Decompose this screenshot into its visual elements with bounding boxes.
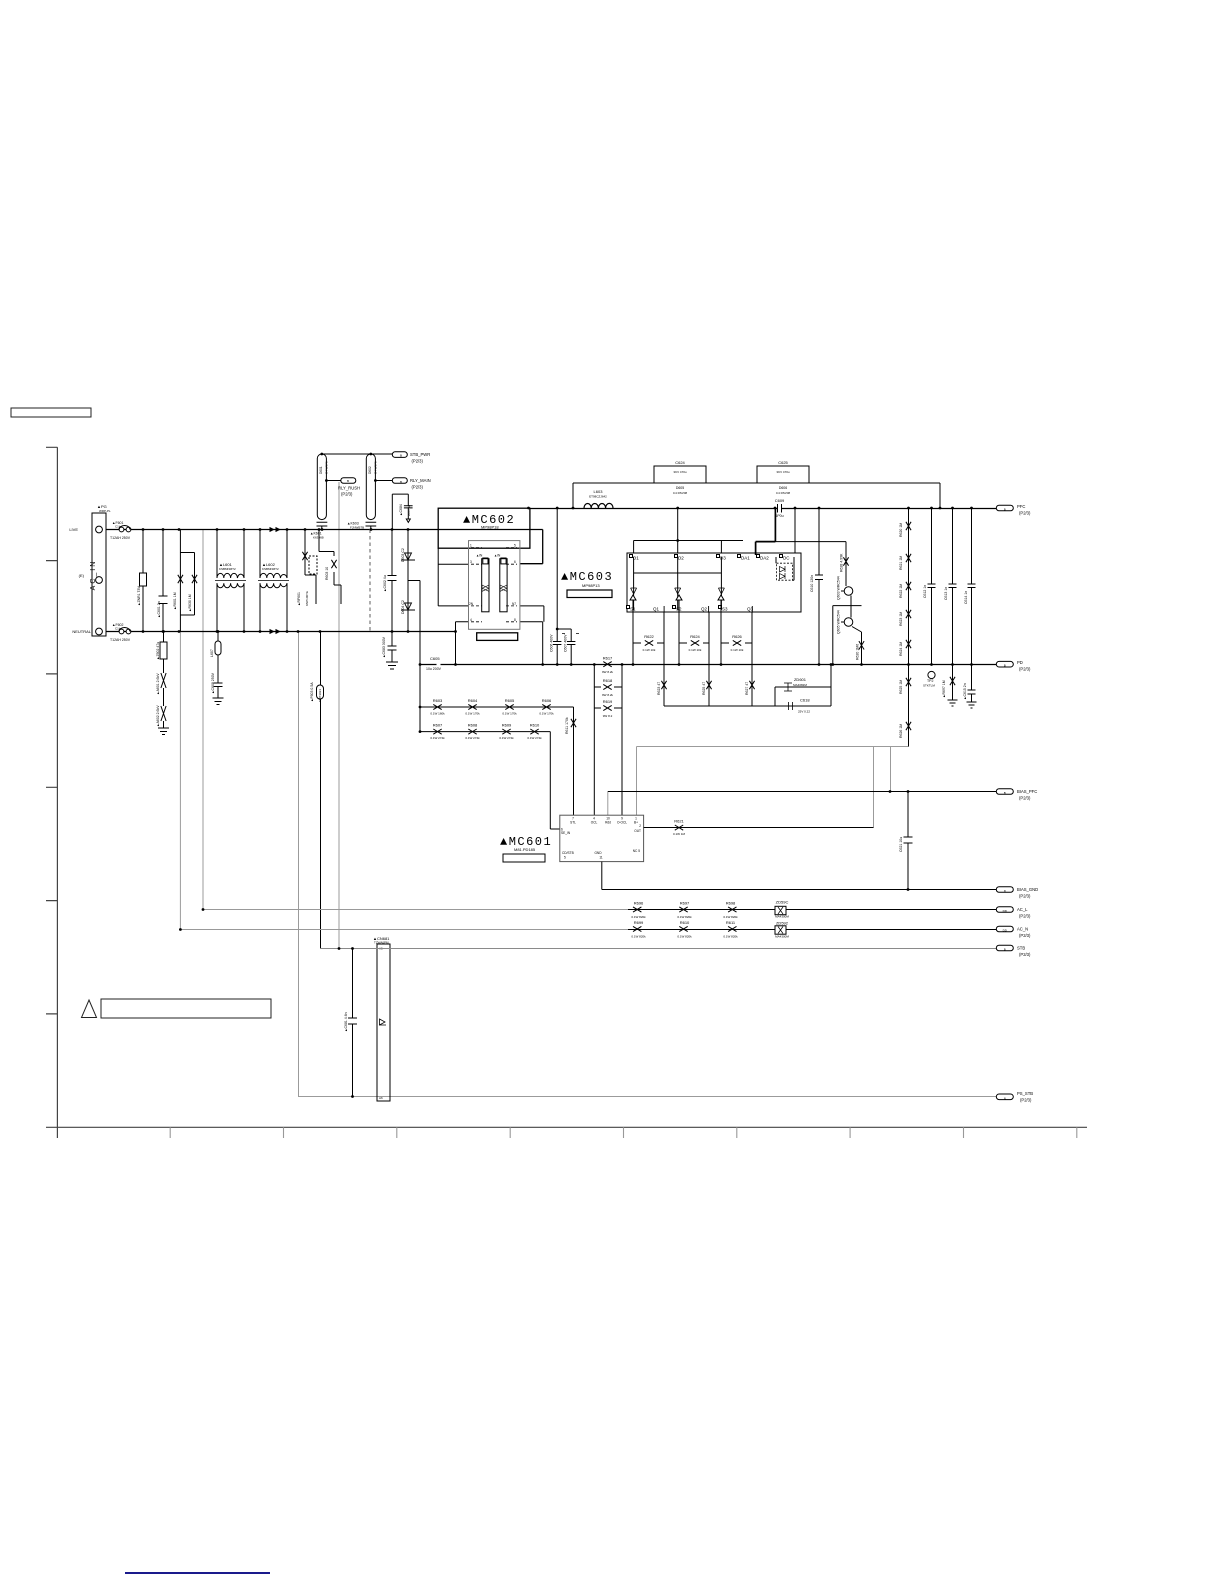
svg-text:9W 8.2k: 9W 8.2k (602, 693, 614, 697)
svg-text:▲C615 2n: ▲C615 2n (963, 683, 967, 700)
svg-text:0.1W 820k: 0.1W 820k (677, 935, 692, 939)
svg-text:AC_N: AC_N (1017, 927, 1028, 932)
svg-text:R608: R608 (468, 723, 478, 728)
svg-text:CD/STB: CD/STB (562, 851, 574, 855)
svg-text:L607: L607 (210, 649, 214, 657)
svg-text:R696: R696 (634, 901, 644, 906)
svg-text:NEUTRAL: NEUTRAL (72, 629, 91, 634)
svg-text:R610: R610 (680, 920, 690, 925)
svg-text:0.1W 274k: 0.1W 274k (465, 736, 480, 740)
svg-text:R617: R617 (603, 656, 613, 661)
svg-text:0.1W 820k: 0.1W 820k (631, 935, 646, 939)
svg-text:RLY_RUSH: RLY_RUSH (338, 486, 360, 491)
svg-text:(P2/3): (P2/3) (1019, 796, 1031, 801)
svg-text:0.1W 274k: 0.1W 274k (430, 736, 445, 740)
svg-text:0.1W 10k: 0.1W 10k (643, 648, 656, 652)
svg-text:S3: S3 (722, 607, 728, 612)
svg-text:C4 W673: C4 W673 (325, 461, 329, 474)
svg-text:5: 5 (564, 856, 566, 860)
svg-text:R626 1M: R626 1M (899, 724, 903, 738)
svg-text:R699: R699 (634, 920, 644, 925)
svg-text:R622: R622 (644, 634, 654, 639)
svg-text:2N: 2N (469, 602, 474, 606)
svg-text:TZWA6PM: TZWA6PM (374, 941, 389, 945)
svg-text:ZD592: ZD592 (776, 920, 789, 925)
svg-text:R625 1M: R625 1M (899, 680, 903, 694)
svg-text:0.1W 274k: 0.1W 274k (527, 736, 542, 740)
svg-text:GND: GND (594, 851, 602, 855)
svg-text:200V 4n: 200V 4n (407, 504, 411, 516)
svg-text:0.1W 820k: 0.1W 820k (723, 915, 738, 919)
svg-text:KNP100TE: KNP100TE (305, 591, 309, 606)
svg-text:NC 5: NC 5 (633, 849, 640, 853)
svg-text:ZD59C: ZD59C (776, 900, 789, 905)
svg-text:B: B (1004, 664, 1006, 668)
svg-text:Q605 WRC544: Q605 WRC544 (837, 610, 841, 634)
svg-text:AC_IN: AC_IN (90, 560, 97, 591)
svg-text:(P2/3): (P2/3) (412, 485, 424, 490)
svg-text:STB: STB (1017, 946, 1025, 951)
svg-text:▲R601 1M: ▲R601 1M (173, 592, 177, 610)
svg-text:C1b: C1b (115, 627, 121, 631)
svg-text:25V 0.22: 25V 0.22 (798, 710, 810, 714)
svg-text:R619: R619 (603, 699, 613, 704)
svg-text:(P2/3): (P2/3) (1019, 952, 1031, 957)
svg-text:▲C608 250V: ▲C608 250V (211, 672, 215, 694)
svg-text:MP98P13: MP98P13 (582, 583, 600, 588)
svg-text:11: 11 (599, 856, 603, 860)
svg-text:▲C601 2n: ▲C601 2n (157, 601, 161, 618)
svg-text:▲C681 4.6n: ▲C681 4.6n (344, 1012, 348, 1032)
svg-text:(E): (E) (79, 573, 85, 578)
svg-text:C625: C625 (778, 460, 788, 465)
svg-text:AC_L: AC_L (1017, 907, 1028, 912)
svg-text:TP2: TP2 (927, 679, 933, 683)
svg-text:R607: R607 (433, 723, 443, 728)
svg-text:DC: DC (783, 556, 790, 561)
svg-text:LIVE: LIVE (69, 527, 78, 532)
svg-text:C606 400V: C606 400V (550, 634, 554, 652)
svg-text:5: 5 (514, 544, 516, 548)
svg-text:T12AH 250V: T12AH 250V (110, 638, 131, 642)
svg-text:MA4300M: MA4300M (775, 934, 789, 938)
svg-text:R621: R621 (674, 819, 684, 824)
svg-text:4: 4 (470, 618, 472, 622)
svg-text:(P2/3): (P2/3) (1019, 933, 1031, 938)
svg-text:C607 400V: C607 400V (564, 634, 568, 652)
svg-text:D603 C2: D603 C2 (401, 548, 405, 562)
svg-text:R620 1M6: R620 1M6 (856, 644, 860, 660)
svg-text:S1: S1 (630, 607, 636, 612)
svg-text:STB_PWR: STB_PWR (410, 452, 430, 457)
svg-text:K6306B: K6306B (313, 536, 324, 540)
svg-text:D604 C2: D604 C2 (401, 600, 405, 614)
svg-text:R697: R697 (680, 901, 690, 906)
svg-text:C609: C609 (775, 498, 785, 503)
svg-text:0.1W 10k: 0.1W 10k (731, 648, 744, 652)
svg-text:B: B (400, 480, 402, 484)
svg-text:1: 1 (470, 544, 472, 548)
svg-text:C4 W673: C4 W673 (374, 461, 378, 474)
svg-text:0.1W 820k: 0.1W 820k (677, 915, 692, 919)
svg-text:BIAS_GND: BIAS_GND (1017, 887, 1038, 892)
svg-text:0.1W 160k: 0.1W 160k (430, 712, 445, 716)
svg-text:BIAS_PFC: BIAS_PFC (1017, 789, 1037, 794)
svg-text:C1b: C1b (115, 525, 121, 529)
svg-text:PFC: PFC (1017, 504, 1025, 509)
svg-text:C612 1n: C612 1n (923, 585, 927, 598)
svg-text:▲Z602 47u: ▲Z602 47u (156, 642, 160, 660)
svg-text:▲F603 0.5A: ▲F603 0.5A (310, 682, 314, 702)
svg-text:0.1W 10k: 0.1W 10k (689, 648, 702, 652)
svg-text:8: 8 (514, 618, 516, 622)
svg-text:D3: D3 (720, 556, 726, 561)
svg-text:R627 47: R627 47 (745, 682, 749, 695)
svg-text:0.1W 820k: 0.1W 820k (631, 915, 646, 919)
svg-text:ZD601: ZD601 (794, 677, 807, 682)
svg-text:OUT: OUT (634, 829, 641, 833)
svg-text:0.1W 820k: 0.1W 820k (723, 935, 738, 939)
svg-text:C613 1n: C613 1n (944, 587, 948, 600)
svg-text:(P2/3): (P2/3) (412, 459, 424, 464)
svg-text:(P2/3): (P2/3) (1019, 667, 1031, 672)
svg-text:▲IN: ▲IN (476, 554, 483, 558)
svg-text:PS_STB: PS_STB (1017, 1091, 1033, 1096)
svg-text:C610 120n: C610 120n (810, 575, 814, 592)
svg-text:C4 RSV08: C4 RSV08 (776, 491, 791, 495)
svg-text:▲IN: ▲IN (494, 554, 501, 558)
svg-text:R611 170k: R611 170k (565, 717, 569, 734)
svg-text:A6: A6 (379, 1096, 383, 1100)
svg-text:(P2/3): (P2/3) (1019, 914, 1031, 919)
svg-text:Q2: Q2 (701, 607, 708, 612)
svg-text:(P2/3): (P2/3) (1019, 511, 1031, 516)
svg-text:STKTLM: STKTLM (923, 684, 935, 688)
svg-text:R618: R618 (603, 678, 613, 683)
svg-text:B: B (1004, 791, 1006, 795)
svg-text:6: 6 (514, 560, 516, 564)
svg-text:D2: D2 (678, 556, 684, 561)
svg-text:MA4300M: MA4300M (775, 915, 789, 919)
svg-text:N: N (1004, 1096, 1006, 1100)
svg-text:RLY_MAIN: RLY_MAIN (410, 478, 431, 483)
svg-text:R625 47: R625 47 (702, 682, 706, 695)
svg-text:C605: C605 (430, 656, 440, 661)
svg-text:R609: R609 (502, 723, 512, 728)
svg-text:S2: S2 (676, 607, 682, 612)
svg-text:3: 3 (470, 560, 472, 564)
svg-text:DA1: DA1 (741, 556, 750, 561)
svg-text:M81.PD185: M81.PD185 (514, 847, 536, 852)
svg-text:OCL: OCL (591, 821, 598, 825)
svg-text:N7: N7 (512, 602, 516, 606)
svg-text:SMT3023: SMT3023 (318, 689, 322, 702)
svg-text:R620 1M: R620 1M (899, 523, 903, 537)
svg-text:ET98CZJ642: ET98CZJ642 (589, 495, 607, 499)
svg-text:6P0u: 6P0u (775, 514, 783, 518)
svg-text:O-OCL: O-OCL (617, 821, 627, 825)
svg-text:R698: R698 (726, 901, 736, 906)
svg-text:R604: R604 (468, 698, 478, 703)
svg-text:DA2: DA2 (760, 556, 769, 561)
svg-text:PD: PD (1017, 660, 1023, 665)
svg-text:R611: R611 (726, 920, 736, 925)
svg-text:▲R630 1M: ▲R630 1M (188, 594, 192, 612)
svg-text:MA4082M: MA4082M (793, 683, 807, 687)
svg-text:Rdd: Rdd (605, 821, 611, 825)
svg-text:B+: B+ (634, 821, 638, 825)
svg-text:MP98P18: MP98P18 (481, 525, 499, 530)
svg-text:R603 10: R603 10 (325, 567, 329, 580)
svg-text:D606: D606 (779, 486, 787, 490)
svg-text:WRP-PL: WRP-PL (99, 509, 111, 513)
svg-text:▲C684: ▲C684 (399, 504, 403, 516)
svg-text:0.1W 274k: 0.1W 274k (499, 736, 514, 740)
svg-text:2: 2 (639, 824, 641, 828)
svg-text:0.1W 1M: 0.1W 1M (673, 832, 686, 836)
svg-text:R605: R605 (505, 698, 515, 703)
svg-text:R623 1M: R623 1M (899, 612, 903, 626)
svg-text:C614 1n: C614 1n (964, 591, 968, 604)
svg-text:Q1: Q1 (653, 607, 660, 612)
svg-text:Q603 WRC544: Q603 WRC544 (837, 576, 841, 600)
svg-text:▲A602 2.6kV: ▲A602 2.6kV (156, 705, 160, 727)
svg-text:R622 1M: R622 1M (899, 584, 903, 598)
svg-text:SE_IN: SE_IN (561, 831, 571, 835)
svg-text:C618: C618 (800, 698, 810, 703)
svg-text:(P2/3): (P2/3) (1020, 1098, 1032, 1103)
svg-text:0.1W 170k: 0.1W 170k (539, 712, 554, 716)
svg-text:▲C683 300V: ▲C683 300V (382, 636, 386, 658)
svg-text:0.1W 170k: 0.1W 170k (502, 712, 517, 716)
svg-text:B: B (347, 479, 349, 483)
svg-text:R603: R603 (433, 698, 443, 703)
svg-text:R623 47: R623 47 (657, 682, 661, 695)
svg-text:R624 1M: R624 1M (899, 642, 903, 656)
svg-text:R628 4.99K: R628 4.99K (840, 553, 844, 572)
svg-text:(P2/3): (P2/3) (341, 492, 353, 497)
svg-text:D605: D605 (676, 486, 684, 490)
svg-text:T12AH 250V: T12AH 250V (110, 536, 131, 540)
svg-text:(P2/3): (P2/3) (1019, 894, 1031, 899)
svg-text:KSBMNMT2: KSBMNMT2 (262, 567, 279, 571)
svg-text:Q3: Q3 (747, 607, 754, 612)
svg-text:▲RF601: ▲RF601 (297, 592, 301, 606)
svg-text:R626: R626 (732, 634, 742, 639)
svg-text:C621 10u: C621 10u (899, 837, 903, 852)
svg-text:D1: D1 (633, 556, 639, 561)
svg-text:STL: STL (570, 821, 576, 825)
svg-text:3KV 470u: 3KV 470u (776, 470, 790, 474)
svg-text:B: B (1004, 508, 1006, 512)
svg-text:R610: R610 (530, 723, 540, 728)
svg-text:R624: R624 (690, 634, 700, 639)
svg-text:3KV 470u: 3KV 470u (673, 470, 687, 474)
svg-text:▲ZNR1 T8V: ▲ZNR1 T8V (137, 585, 141, 606)
svg-text:▲A601 2.6kV: ▲A601 2.6kV (156, 673, 160, 695)
svg-text:R606: R606 (542, 698, 552, 703)
svg-text:B: B (1004, 948, 1006, 952)
svg-text:D602: D602 (368, 466, 372, 474)
svg-text:0.1W 170k: 0.1W 170k (465, 712, 480, 716)
svg-text:B: B (400, 454, 402, 458)
svg-text:R621 1M: R621 1M (899, 556, 903, 570)
svg-text:10u 200V: 10u 200V (426, 667, 442, 671)
svg-text:9W 8.2: 9W 8.2 (603, 714, 613, 718)
svg-text:D601: D601 (319, 466, 323, 474)
svg-text:C624: C624 (675, 460, 685, 465)
svg-text:L603: L603 (594, 489, 604, 494)
svg-text:C4 RSV08: C4 RSV08 (673, 491, 688, 495)
svg-text:FJNWBTB: FJNWBTB (350, 525, 364, 529)
svg-text:▲R697 1M: ▲R697 1M (942, 680, 946, 698)
svg-text:▲C602 4u: ▲C602 4u (383, 575, 387, 592)
svg-text:▲MC603: ▲MC603 (561, 570, 613, 584)
svg-text:KSBMNMT2: KSBMNMT2 (219, 567, 236, 571)
svg-text:9W 8.2k: 9W 8.2k (602, 670, 614, 674)
